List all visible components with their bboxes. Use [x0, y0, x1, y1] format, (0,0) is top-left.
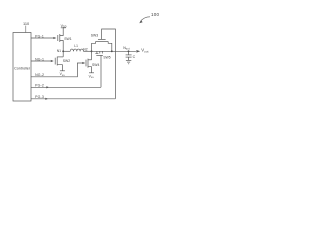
transistor SW5 (bulk switch under output wire)	[95, 51, 110, 59]
svg-text:NG-1: NG-1	[35, 57, 44, 61]
svg-text:Nout: Nout	[123, 46, 130, 51]
wire N2 to Nout to Vout arrow	[92, 50, 136, 52]
controller U110 box	[13, 33, 31, 102]
power VSS under SW4	[89, 73, 95, 79]
inductor L1	[70, 44, 83, 51]
svg-text:PG-2: PG-2	[35, 83, 44, 87]
svg-text:N1: N1	[57, 49, 61, 53]
transistor SW4	[86, 59, 99, 73]
wire NG-2 (controller to SW4 gate)	[31, 63, 83, 77]
svg-text:SW2: SW2	[63, 59, 70, 63]
node N1	[57, 49, 64, 53]
reference 110	[23, 21, 30, 32]
svg-text:PG-1: PG-1	[35, 34, 44, 38]
svg-text:L1: L1	[74, 44, 78, 48]
wire SW5 gate stem to PG-2 line	[100, 55, 102, 87]
svg-text:VSS: VSS	[89, 74, 95, 79]
wire SW3 gate loop from PG-3 line	[102, 29, 116, 99]
svg-text:SW1: SW1	[64, 37, 71, 41]
wire PG-2 (controller to SW5 gate stem)	[31, 86, 101, 88]
wire PG-1 (controller to SW1 gate)	[31, 37, 54, 39]
wire PG-3 (controller to SW3 gate loop)	[31, 98, 115, 100]
wire N2 column (SW3 source to N2 to SW4 drain)	[91, 43, 93, 60]
svg-text:VDD: VDD	[61, 24, 67, 29]
power VSS under SW2	[60, 71, 66, 77]
svg-text:VSS: VSS	[60, 72, 66, 77]
junction SW3 right leg on Nout wire	[111, 50, 113, 52]
wire NG-1 (controller to SW2 gate)	[31, 60, 52, 62]
svg-text:Controller: Controller	[14, 67, 31, 71]
power VDD	[61, 24, 67, 29]
svg-text:100: 100	[151, 12, 160, 17]
wire N1 to L1	[63, 50, 70, 52]
ground	[126, 60, 131, 63]
svg-text:110: 110	[23, 21, 30, 26]
figure reference 100	[139, 12, 159, 23]
node N2	[83, 47, 92, 52]
wire L1 to node N2	[83, 50, 91, 52]
transistor SW1	[58, 28, 72, 57]
svg-text:PG-3: PG-3	[35, 95, 44, 99]
svg-text:SW5: SW5	[103, 56, 110, 60]
node Nout	[123, 46, 130, 52]
svg-text:SW3: SW3	[91, 33, 98, 37]
svg-text:Vout: Vout	[141, 48, 148, 54]
svg-text:C: C	[133, 55, 136, 59]
transistor SW3 (top pass switch)	[91, 33, 112, 51]
svg-text:SW4: SW4	[92, 63, 99, 67]
capacitor C	[126, 51, 136, 60]
svg-text:NG-2: NG-2	[35, 73, 44, 77]
transistor SW2	[55, 57, 70, 71]
svg-text:N2: N2	[83, 47, 87, 51]
